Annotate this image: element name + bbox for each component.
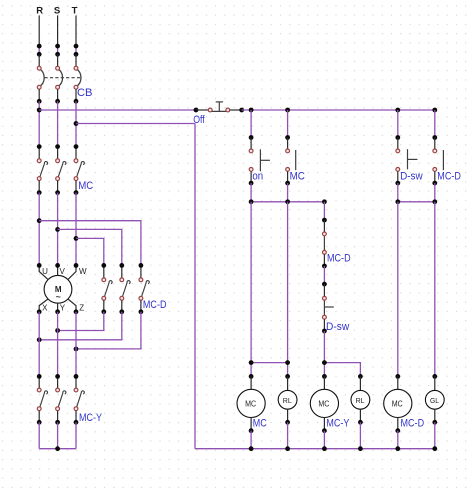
contact terminal top: [396, 149, 400, 153]
svg-text:W: W: [79, 267, 87, 276]
coil MC-D top pin: [397, 376, 399, 389]
svg-text:MC-D: MC-D: [437, 171, 461, 183]
junction S below CB: [55, 99, 60, 104]
svg-text:MC: MC: [318, 399, 329, 408]
svg-text:D-sw: D-sw: [326, 321, 349, 333]
contactor MC-D main contact pole 3 terminal bottom: [139, 296, 143, 300]
wire motor Y to MC-Y: [57, 312, 59, 377]
junction coil MC top: [249, 374, 254, 379]
circuit breaker CB mechanical link (dashed): [45, 77, 83, 79]
wire left return rail: [194, 124, 196, 449]
wire bus drop: [250, 110, 252, 138]
svg-text:U: U: [42, 267, 48, 276]
switch D-sw2 bottom pin: [323, 319, 325, 331]
junction MC pole 1 bottom: [37, 190, 42, 195]
coil MC-Y circle: [310, 389, 338, 417]
coil MC-Y bottom pin: [323, 418, 325, 431]
junction R control tap: [37, 108, 42, 113]
contactor MC-Y contact pole 1 top pin: [38, 376, 40, 388]
wire MC-D branch to GL: [434, 202, 436, 377]
junction Off button left pin: [194, 108, 199, 113]
contact MC aux bar: [295, 150, 297, 170]
wire rung1 to MC-D NC contact: [323, 202, 325, 220]
junction rung1: [322, 199, 327, 204]
contact top pin: [287, 138, 289, 150]
contactor MC main contact pole 2 top pin: [57, 147, 59, 159]
wire S above CB: [57, 46, 59, 54]
contactor MC main contact pole 1 top pin: [38, 147, 40, 159]
circuit breaker CB pole R top pin: [38, 54, 40, 66]
svg-text:S: S: [54, 6, 60, 17]
motor terminal W lead: [68, 265, 76, 279]
switch D-sw bar: [407, 149, 409, 169]
wire delta S to MC-D pole2 top: [58, 229, 122, 265]
contactor MC-D main contact pole 2 bottom pin: [121, 300, 123, 312]
junction motor terminal Y: [55, 309, 60, 314]
contact top pin: [397, 138, 399, 150]
contactor MC-Y contact pole 3 top pin: [75, 376, 77, 388]
junction rung1: [285, 199, 290, 204]
junction contact top pin: [285, 135, 290, 140]
junction bottom bus: [249, 446, 254, 451]
wire rung1 left segment: [251, 201, 324, 203]
supply lead S: [57, 16, 59, 47]
lamp GL circle: [425, 390, 444, 409]
junction delta bottom X: [37, 337, 42, 342]
junction MC-D pole 1 top: [101, 263, 106, 268]
wire MC-D NC to D-sw: [323, 266, 325, 284]
contactor MC-D main contact pole 2 top pin: [121, 265, 123, 278]
wire T above CB: [75, 46, 77, 54]
pushbutton Off actuator cap: [216, 101, 223, 103]
junction top bus MC-D branch: [432, 108, 437, 113]
contact bottom pin: [434, 171, 436, 183]
wire D-sw branch to MC-D coil: [397, 202, 399, 377]
contact bottom pin: [397, 171, 399, 183]
svg-text:MC: MC: [392, 399, 403, 408]
junction rung1: [395, 199, 400, 204]
relay RL1 circle: [278, 390, 297, 409]
lamp GL top pin: [434, 376, 436, 390]
junction D-sw2 top: [322, 282, 327, 287]
junction contact bottom pin: [432, 181, 437, 186]
contactor MC main contact pole 3 top pin: [75, 147, 77, 159]
svg-text:RL: RL: [356, 396, 365, 405]
junction rung1: [249, 199, 254, 204]
wire on branch to MC coil: [250, 202, 252, 377]
wire T tap to left rail: [76, 123, 195, 125]
circuit breaker CB pole R arc: [39, 69, 44, 87]
junction T below CB: [74, 99, 79, 104]
pushbutton Off NC bar: [208, 110, 229, 112]
wire delta T to MC-D pole1 top: [76, 238, 104, 265]
wire S MC to motor: [57, 193, 59, 266]
junction MC-Y pole 2 bottom: [55, 420, 60, 425]
switch D-sw2 closed bar: [323, 298, 325, 317]
svg-text:MC-D: MC-D: [401, 418, 425, 430]
coil MC circle: [237, 389, 265, 417]
junction bottom bus: [395, 446, 400, 451]
junction MC pole 1 top: [37, 144, 42, 149]
contact bottom pin: [250, 171, 252, 183]
relay RL2 bottom pin: [359, 409, 361, 422]
wire motor X to MC-Y: [38, 312, 40, 377]
svg-text:V: V: [60, 267, 66, 276]
wire MC-D pole3 bottom to Z: [76, 312, 141, 349]
svg-text:MC-Y: MC-Y: [79, 412, 103, 424]
pushbutton on NO bar: [259, 149, 261, 171]
junction lamp GL top: [432, 374, 437, 379]
junction contact bottom pin: [285, 181, 290, 186]
svg-text:R: R: [36, 6, 43, 17]
contactor MC main contact pole 1 blade: [40, 162, 48, 177]
contact top pin: [434, 138, 436, 150]
contactor MC main contact pole 1 bottom pin: [38, 181, 40, 193]
junction motor terminal V: [55, 263, 60, 268]
svg-text:MC-Y: MC-Y: [326, 418, 350, 430]
junction MC-Y pole 1 bottom: [37, 420, 42, 425]
junction MC-Y pole 3 bottom: [74, 420, 79, 425]
contactor MC-Y contact pole 3 terminal bottom: [74, 407, 78, 411]
contactor MC-Y contact pole 1 blade: [40, 391, 48, 407]
junction delta tap R: [37, 218, 42, 223]
pushbutton on actuator: [260, 159, 270, 161]
supply lead R: [38, 16, 40, 47]
wire rung2 left segment: [251, 362, 288, 364]
contact terminal top: [433, 149, 437, 153]
lamp GL bottom pin: [434, 409, 436, 422]
junction MC-D pole 1 bottom: [101, 309, 106, 314]
junction T control tap: [74, 121, 79, 126]
junction delta tap T: [74, 236, 79, 241]
junction R below CB: [37, 99, 42, 104]
junction rung2 c: [322, 360, 327, 365]
junction S y54: [55, 52, 60, 57]
wire T MC to motor: [75, 193, 77, 266]
svg-text:Z: Z: [79, 303, 84, 312]
wire R CB to MC contact: [38, 101, 40, 146]
wire R tap to Off button: [39, 109, 196, 111]
pushbutton Off actuator stem: [218, 102, 220, 112]
junction top bus D-sw branch: [395, 108, 400, 113]
svg-text:X: X: [42, 303, 48, 312]
contact top pin: [250, 138, 252, 150]
switch D-sw2 top pin: [323, 284, 325, 296]
svg-text:MC-D: MC-D: [143, 299, 167, 311]
wire bus drop: [434, 110, 436, 138]
contact MC-D NC terminal top: [323, 232, 327, 236]
svg-text:MC-D: MC-D: [327, 252, 351, 264]
contactor MC-D main contact pole 1 terminal bottom: [102, 296, 106, 300]
junction T y54: [74, 52, 79, 57]
supply lead T: [75, 16, 77, 47]
wire coil MC-Y to bottom bus: [323, 431, 325, 449]
wire MC-D pole2 bottom to X: [39, 312, 122, 340]
contactor MC-D main contact pole 2 terminal bottom: [120, 296, 124, 300]
wire control top bus: [242, 109, 435, 111]
junction lamp GL bottom: [432, 420, 437, 425]
contactor MC-Y contact pole 2 terminal top: [56, 388, 60, 392]
contact MC-D NC terminal bottom: [323, 250, 327, 254]
circuit breaker CB pole T top pin: [75, 54, 77, 66]
motor terminal X lead: [39, 299, 48, 312]
svg-text:MC: MC: [290, 171, 305, 183]
wire lamp GL to bottom bus: [434, 422, 436, 448]
junction bottom bus: [432, 446, 437, 451]
contactor MC-D main contact pole 1 blade: [105, 281, 113, 297]
contact terminal top: [286, 149, 290, 153]
contactor MC-Y contact pole 2 blade: [58, 391, 66, 407]
contactor MC main contact pole 3 terminal top: [74, 159, 78, 163]
junction contact top pin: [432, 135, 437, 140]
wire D-sw2 to MC-Y coil: [323, 331, 325, 376]
coil MC-D bottom pin: [397, 418, 399, 431]
svg-text:D-sw: D-sw: [400, 171, 423, 183]
wire relay RL2 to bottom bus: [359, 422, 361, 448]
junction delta tap S: [55, 227, 60, 232]
junction star point: [55, 446, 60, 451]
wire rung1 right segment: [398, 201, 435, 203]
contactor MC-Y contact pole 3 terminal top: [74, 388, 78, 392]
pushbutton Off terminal right: [226, 108, 230, 112]
svg-text:T: T: [72, 6, 78, 17]
junction rung1: [432, 199, 437, 204]
contactor MC main contact pole 3 blade: [77, 162, 85, 177]
contactor MC main contact pole 2 terminal top: [56, 159, 60, 163]
coil MC-Y top pin: [323, 376, 325, 389]
contactor MC main contact pole 1 terminal bottom: [37, 177, 41, 181]
junction T y46: [74, 44, 79, 49]
contactor MC-D main contact pole 1 top pin: [103, 265, 105, 278]
junction contact bottom pin: [395, 181, 400, 186]
junction relay RL2 top: [358, 374, 363, 379]
circuit breaker CB pole S terminal bottom: [56, 85, 60, 89]
junction bottom bus: [322, 446, 327, 451]
coil MC-D circle: [384, 389, 412, 417]
junction delta bottom V: [55, 328, 60, 333]
contactor MC-D main contact pole 3 top pin: [140, 265, 142, 278]
junction motor terminal U: [37, 263, 42, 268]
contactor MC main contact pole 3 terminal bottom: [74, 177, 78, 181]
contact MC-D aux bar: [442, 150, 444, 170]
contactor MC-D main contact pole 3 blade: [142, 281, 150, 297]
circuit breaker CB pole S terminal top: [56, 66, 60, 70]
wire coil MC-D to bottom bus: [397, 431, 399, 449]
wire T CB to MC contact: [75, 101, 77, 146]
contactor MC-Y contact pole 2 bottom pin: [57, 411, 59, 423]
contactor MC-D main contact pole 2 blade: [123, 281, 131, 297]
wire coil MC to bottom bus: [250, 431, 252, 449]
motor terminal Y lead: [57, 303, 59, 312]
contact MC-D NC closed bar: [323, 234, 325, 252]
circuit breaker CB pole S top pin: [57, 54, 59, 66]
svg-text:RL: RL: [283, 396, 292, 405]
junction Off button right pin: [239, 108, 244, 113]
junction relay RL2 bottom: [358, 420, 363, 425]
svg-text:MC: MC: [253, 418, 267, 430]
wire MC-Y pole1 to star point: [38, 422, 40, 448]
circuit breaker CB pole S arc: [58, 69, 63, 87]
wire contact to rung1: [250, 183, 252, 202]
wire bus drop: [397, 110, 399, 138]
svg-text:~: ~: [56, 291, 61, 301]
junction R y46: [37, 44, 42, 49]
junction MC pole 3 bottom: [74, 190, 79, 195]
wire relay RL1 to bottom bus: [287, 422, 289, 448]
contact MC-D NC top pin: [323, 220, 325, 232]
wire motor Z to MC-Y: [75, 312, 77, 377]
junction MC-D pole 3 top: [139, 263, 144, 268]
wire star point bus: [39, 448, 76, 450]
contact terminal bottom: [286, 168, 290, 172]
contactor MC-Y contact pole 3 bottom pin: [75, 411, 77, 423]
contactor MC-Y contact pole 1 terminal top: [37, 388, 41, 392]
junction rung2 a: [249, 360, 254, 365]
relay RL2 top pin: [359, 376, 361, 390]
switch D-sw2 terminal top: [323, 296, 327, 300]
wire contact to rung1: [434, 183, 436, 202]
contactor MC-Y contact pole 3 blade: [77, 391, 85, 407]
contactor MC main contact pole 3 bottom pin: [75, 181, 77, 193]
circuit breaker CB pole R terminal bottom: [37, 85, 41, 89]
contact terminal bottom: [396, 168, 400, 172]
contactor MC-Y contact pole 1 bottom pin: [38, 411, 40, 423]
wire MC-D pole1 bottom to V: [58, 312, 104, 331]
wire contact to rung1: [397, 183, 399, 202]
contactor MC main contact pole 2 bottom pin: [57, 181, 59, 193]
relay RL1 bottom pin: [287, 409, 289, 422]
contact bottom pin: [287, 171, 289, 183]
relay RL1 top pin: [287, 376, 289, 390]
junction relay RL1 bottom: [285, 420, 290, 425]
switch D-sw2 actuator: [324, 306, 333, 308]
circuit breaker CB pole T terminal bottom: [74, 85, 78, 89]
junction bottom bus: [358, 446, 363, 451]
contactor MC-D main contact pole 1 terminal top: [102, 278, 106, 282]
junction bottom bus: [285, 446, 290, 451]
svg-text:Y: Y: [60, 303, 66, 312]
wire MC-Y pole3 to star point: [75, 422, 77, 448]
contactor MC main contact pole 2 blade: [58, 162, 66, 177]
wire MC branch to RL1: [287, 202, 289, 377]
wire S CB to MC contact: [57, 101, 59, 146]
junction top bus MC branch: [285, 108, 290, 113]
junction MC-D pole 3 bottom: [139, 309, 144, 314]
contactor MC main contact pole 1 terminal top: [37, 159, 41, 163]
switch D-sw actuator: [408, 158, 418, 160]
junction MC-D pole 2 top: [119, 263, 124, 268]
relay RL2 circle: [351, 390, 370, 409]
motor terminal U lead: [39, 265, 48, 279]
coil MC top pin: [250, 376, 252, 389]
motor terminal Z lead: [68, 299, 76, 312]
junction coil MC bottom: [249, 428, 254, 433]
contactor MC-D main contact pole 2 terminal top: [120, 278, 124, 282]
contact terminal bottom: [433, 168, 437, 172]
junction MC-D pole 2 bottom: [119, 309, 124, 314]
junction relay RL1 top: [285, 374, 290, 379]
svg-text:on: on: [252, 171, 263, 183]
svg-text:MC: MC: [245, 399, 256, 408]
contact terminal bottom: [249, 168, 253, 172]
circuit breaker CB pole T bottom pin: [75, 89, 77, 101]
contactor MC-D main contact pole 1 bottom pin: [103, 300, 105, 312]
junction motor terminal X: [37, 309, 42, 314]
svg-text:MC: MC: [78, 180, 93, 192]
contactor MC-D main contact pole 3 terminal top: [139, 278, 143, 282]
circuit breaker CB pole T arc: [76, 69, 81, 87]
junction MC pole 3 top: [74, 144, 79, 149]
wire delta R to MC-D pole3 top: [39, 221, 141, 266]
pushbutton Off terminal left: [208, 108, 212, 112]
svg-text:GL: GL: [430, 396, 439, 405]
junction MC pole 2 top: [55, 144, 60, 149]
contactor MC main contact pole 2 terminal bottom: [56, 177, 60, 181]
contact terminal top: [249, 149, 253, 153]
motor terminal V lead: [57, 265, 59, 275]
contactor MC-Y contact pole 1 terminal bottom: [37, 407, 41, 411]
wire R MC to motor: [38, 193, 40, 266]
junction contact top pin: [395, 135, 400, 140]
contactor MC-Y contact pole 2 terminal bottom: [56, 407, 60, 411]
junction D-sw2 bottom: [322, 329, 327, 334]
junction top bus on branch: [249, 108, 254, 113]
junction coil MC-Y top: [322, 374, 327, 379]
switch D-sw2 terminal bottom: [323, 315, 327, 319]
motor M circle: [44, 275, 72, 303]
junction MC-Y pole 2 top: [55, 374, 60, 379]
junction R y54: [37, 52, 42, 57]
pushbutton Off right pin: [230, 109, 242, 111]
wire control bottom bus: [195, 448, 435, 450]
wire bus drop: [287, 110, 289, 138]
wire rung2 right segment: [324, 363, 360, 377]
junction S y46: [55, 44, 60, 49]
circuit breaker CB pole R bottom pin: [38, 89, 40, 101]
contact MC-D NC bottom pin: [323, 254, 325, 266]
junction contact bottom pin: [249, 181, 254, 186]
junction MC-Y pole 1 top: [37, 374, 42, 379]
junction motor terminal W: [74, 263, 79, 268]
circuit breaker CB pole T terminal top: [74, 66, 78, 70]
wire R above CB: [38, 46, 40, 54]
junction MC-Y pole 3 top: [74, 374, 79, 379]
junction rung2 b: [285, 360, 290, 365]
contactor MC-D main contact pole 3 bottom pin: [140, 300, 142, 312]
junction MC pole 2 bottom: [55, 190, 60, 195]
wire contact to rung1: [287, 183, 289, 202]
coil MC bottom pin: [250, 418, 252, 431]
junction MC-D NC top: [322, 218, 327, 223]
junction delta bottom Z: [74, 347, 79, 352]
contactor MC-Y contact pole 2 top pin: [57, 376, 59, 388]
pushbutton Off left pin: [196, 109, 208, 111]
svg-text:CB: CB: [77, 87, 93, 99]
circuit breaker CB pole R terminal top: [37, 66, 41, 70]
junction coil MC-Y bottom: [322, 428, 327, 433]
junction MC-D NC bottom: [322, 264, 327, 269]
junction motor terminal Z: [74, 309, 79, 314]
wire MC-Y pole2 to star point: [57, 422, 59, 448]
junction contact top pin: [249, 135, 254, 140]
junction coil MC-D bottom: [395, 428, 400, 433]
circuit breaker CB pole S bottom pin: [57, 89, 59, 101]
junction coil MC-D top: [395, 374, 400, 379]
